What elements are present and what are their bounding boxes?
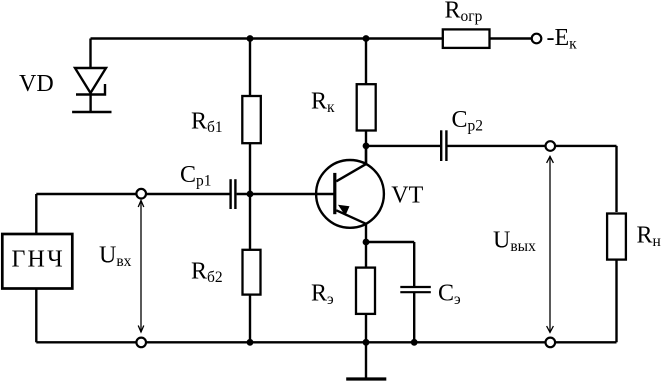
svg-text:Rэ: Rэ xyxy=(311,280,334,308)
svg-text:Rн: Rн xyxy=(637,223,661,251)
svg-text:Rб1: Rб1 xyxy=(191,109,223,137)
svg-text:VD: VD xyxy=(19,71,54,97)
svg-text:Cр2: Cр2 xyxy=(452,107,484,135)
svg-text:Rб2: Rб2 xyxy=(191,258,223,286)
svg-text:Rк: Rк xyxy=(311,88,335,116)
svg-text:Cэ: Cэ xyxy=(438,281,461,309)
svg-text:Cр1: Cр1 xyxy=(180,162,212,190)
svg-text:-Eк: -Eк xyxy=(547,25,578,53)
svg-text:ГНЧ: ГНЧ xyxy=(11,247,64,273)
svg-text:Rогр: Rогр xyxy=(445,0,483,25)
svg-text:Uвых: Uвых xyxy=(493,227,536,255)
svg-text:Uвх: Uвх xyxy=(99,243,132,271)
svg-text:VT: VT xyxy=(391,183,423,209)
